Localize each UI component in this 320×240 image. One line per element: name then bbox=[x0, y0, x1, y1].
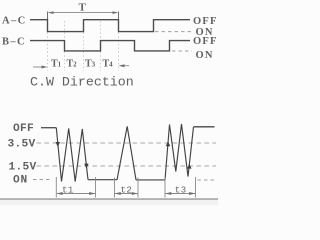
svg-text:T4: T4 bbox=[103, 58, 114, 69]
labels T1 T2 T3 T4 bbox=[51, 58, 113, 69]
ON level line t2..t3 bbox=[136, 179, 165, 181]
svg-text:C.W Direction: C.W Direction bbox=[30, 75, 134, 90]
T arrowheads bbox=[48, 11, 54, 14]
waveform A-C bbox=[30, 20, 190, 32]
T dimension arrow line bbox=[49, 12, 118, 14]
ON dashed segment right bbox=[198, 179, 216, 181]
right outside dimension arrow bbox=[121, 65, 129, 67]
3.5V dashed threshold line bbox=[37, 142, 217, 144]
svg-text:OFF: OFF bbox=[193, 36, 218, 47]
svg-text:1.5V: 1.5V bbox=[9, 162, 37, 174]
svg-text:B–C: B–C bbox=[2, 37, 26, 48]
threshold crossing arrowheads bbox=[56, 142, 60, 147]
ON level line t1..t2 bbox=[88, 179, 117, 181]
svg-text:OFF: OFF bbox=[193, 16, 218, 27]
svg-text:3.5V: 3.5V bbox=[8, 138, 36, 150]
svg-text:A–C: A–C bbox=[2, 16, 27, 27]
bounce waveform t1 group bbox=[56, 128, 88, 182]
dashed ON reference line (A-C) bbox=[155, 31, 192, 33]
svg-text:T1: T1 bbox=[51, 58, 62, 69]
t1 dimension arrow bbox=[57, 193, 95, 195]
svg-text:T3: T3 bbox=[85, 58, 96, 69]
t2 dimension arrow bbox=[115, 193, 138, 195]
bottom separator line bbox=[0, 198, 218, 199]
ON dashed segment left bbox=[33, 179, 50, 181]
bottom light band bbox=[0, 200, 218, 205]
svg-text:T2: T2 bbox=[67, 58, 78, 69]
t3 dimension arrow bbox=[166, 193, 196, 195]
OFF level line after t3 bbox=[194, 126, 215, 128]
svg-text:ON: ON bbox=[196, 50, 214, 61]
svg-text:t2: t2 bbox=[121, 185, 133, 195]
svg-text:t1: t1 bbox=[62, 185, 74, 195]
1.5V dashed threshold line bbox=[37, 165, 217, 167]
vertical dashed T1-T4 boundary lines bbox=[48, 21, 119, 71]
dimension extension lines bottom bbox=[56, 177, 195, 198]
t2 spike triangle bbox=[117, 126, 136, 179]
svg-text:T: T bbox=[79, 1, 87, 13]
OFF level lead line bbox=[41, 127, 56, 129]
T dimension: extension ticks bbox=[48, 12, 119, 20]
bounce waveform t3 group bbox=[165, 124, 194, 180]
svg-text:OFF: OFF bbox=[13, 123, 34, 135]
waveform B-C bbox=[30, 41, 190, 51]
dashed ON reference line (B-C) bbox=[172, 50, 192, 52]
svg-text:ON: ON bbox=[13, 175, 28, 187]
svg-text:t3: t3 bbox=[175, 185, 187, 195]
left outside dimension arrow bbox=[33, 66, 44, 68]
encoder timing diagram figure bbox=[0, 0, 218, 205]
